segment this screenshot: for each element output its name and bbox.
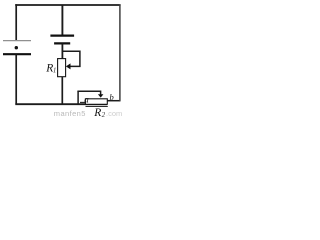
wire right <box>119 5 121 101</box>
battery E dot <box>15 46 18 49</box>
R2 wiper arrowhead <box>98 94 104 97</box>
svg-text:1: 1 <box>53 67 57 75</box>
resistor R1 box <box>58 59 66 77</box>
battery E top plate <box>3 40 31 42</box>
wire R1 wiper loop <box>62 51 80 66</box>
line under R2 box <box>86 105 108 107</box>
svg-text:.com: .com <box>106 109 122 118</box>
wire left lower <box>15 55 17 105</box>
svg-text:2: 2 <box>102 111 106 119</box>
svg-text:b: b <box>110 92 114 102</box>
wire R2 wiper riser <box>77 91 79 104</box>
wire R1 to bottom <box>61 77 63 104</box>
R1 wiper arrowhead <box>66 63 71 69</box>
wire top <box>15 4 120 6</box>
capacitor stem top <box>61 5 63 35</box>
wire bottom <box>15 103 107 105</box>
wire terminal a stub <box>80 101 86 103</box>
svg-text:manfen5: manfen5 <box>54 109 86 118</box>
capacitor bottom plate <box>54 42 70 44</box>
wire R2 wiper horizontal <box>77 91 100 94</box>
wire left upper <box>15 4 17 40</box>
svg-text:a: a <box>84 94 89 104</box>
battery E bottom plate <box>3 53 31 55</box>
wire terminal b <box>107 100 120 102</box>
capacitor top plate <box>50 34 74 36</box>
wire capacitor to R1 <box>61 44 63 59</box>
svg-text:R: R <box>93 107 101 119</box>
resistor R2 box <box>85 99 107 105</box>
